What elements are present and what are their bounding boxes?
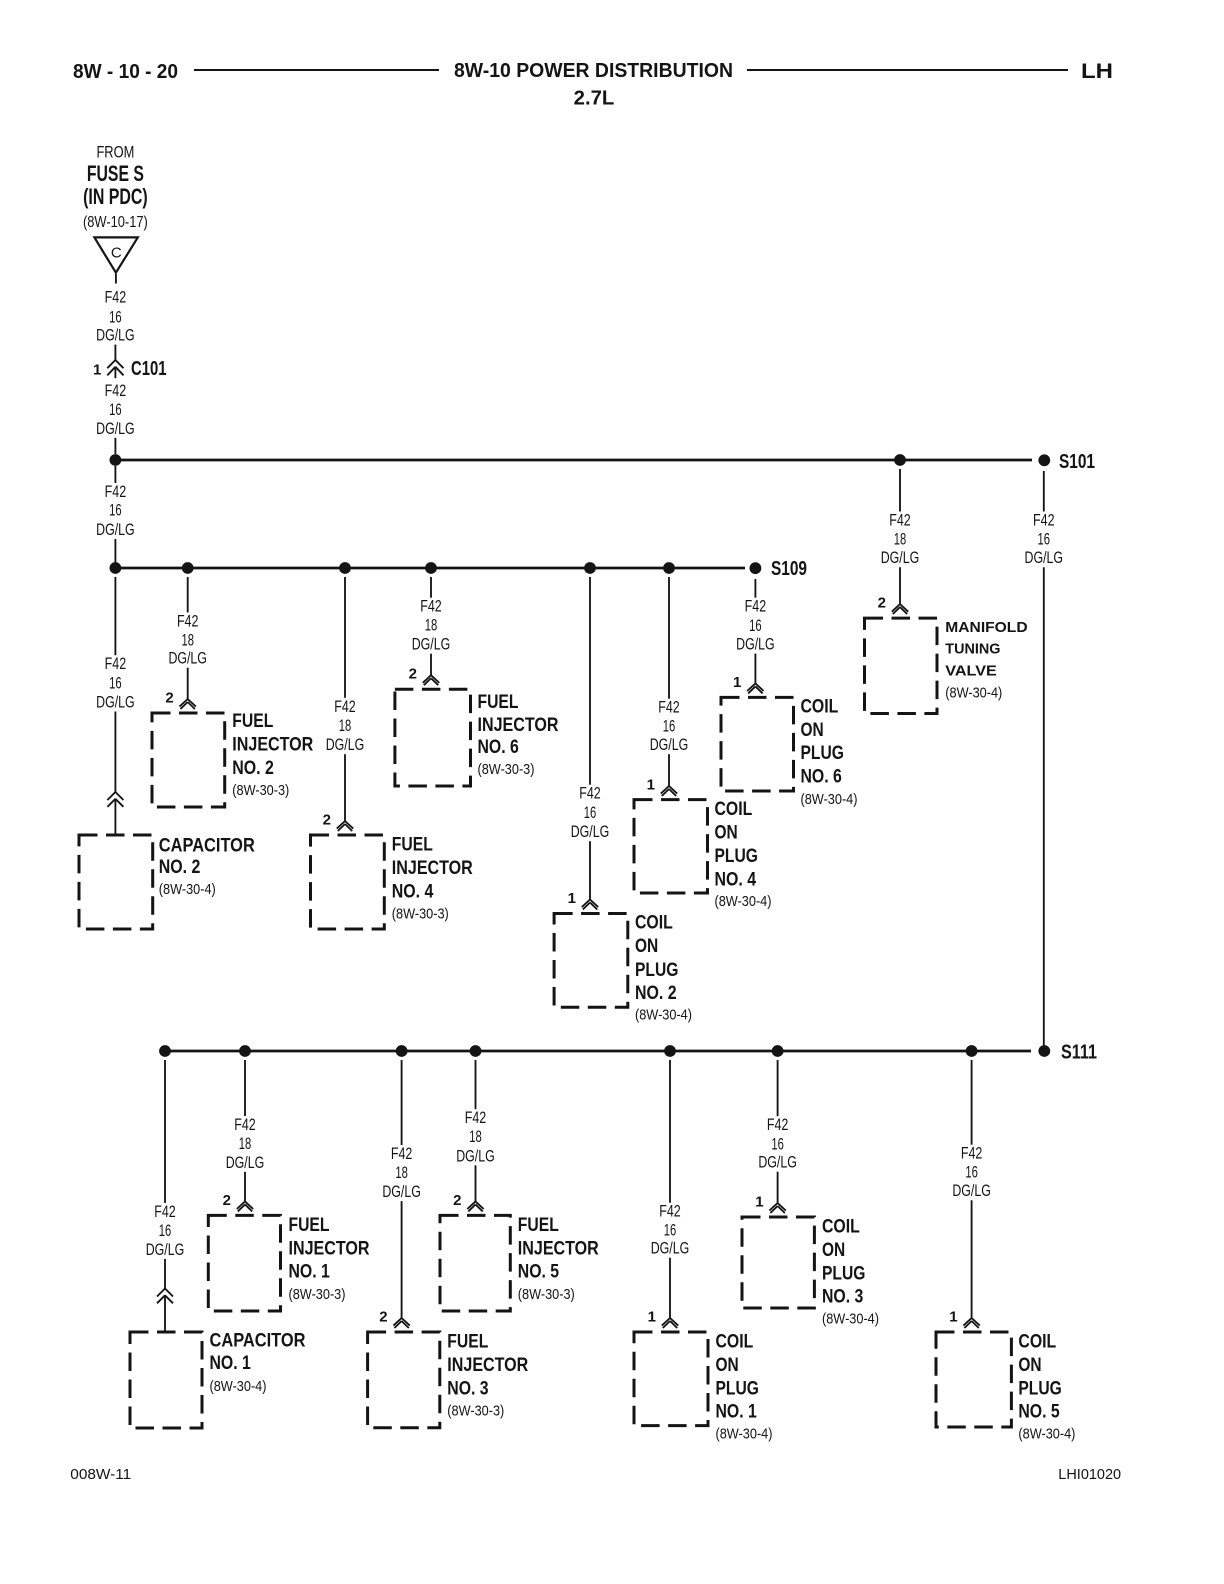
svg-text:2: 2: [453, 1192, 461, 1209]
svg-text:PLUG: PLUG: [635, 959, 678, 981]
svg-text:LH: LH: [1081, 59, 1113, 83]
svg-text:1: 1: [949, 1309, 957, 1326]
svg-text:F42: F42: [658, 699, 680, 717]
svg-text:1: 1: [733, 674, 741, 691]
svg-text:1: 1: [648, 1309, 656, 1326]
svg-text:NO. 4: NO. 4: [715, 868, 757, 890]
svg-text:8W - 10 - 20: 8W - 10 - 20: [73, 61, 178, 83]
svg-text:C101: C101: [131, 358, 167, 380]
svg-text:C: C: [111, 244, 122, 261]
svg-text:DG/LG: DG/LG: [96, 694, 135, 712]
svg-text:PLUG: PLUG: [716, 1377, 759, 1399]
svg-text:PLUG: PLUG: [822, 1262, 865, 1284]
svg-text:FUEL: FUEL: [232, 710, 273, 732]
svg-text:FUEL: FUEL: [289, 1214, 330, 1236]
svg-text:NO. 6: NO. 6: [801, 766, 842, 788]
svg-text:PLUG: PLUG: [1018, 1377, 1061, 1399]
svg-text:NO. 1: NO. 1: [289, 1261, 330, 1283]
svg-text:F42: F42: [105, 483, 127, 501]
svg-text:NO. 6: NO. 6: [478, 736, 519, 758]
svg-text:NO. 3: NO. 3: [822, 1286, 863, 1308]
svg-text:INJECTOR: INJECTOR: [392, 857, 473, 879]
svg-text:16: 16: [109, 308, 122, 326]
svg-text:DG/LG: DG/LG: [881, 549, 920, 567]
svg-text:FUEL: FUEL: [447, 1331, 488, 1353]
svg-text:DG/LG: DG/LG: [758, 1154, 797, 1172]
svg-text:DG/LG: DG/LG: [571, 823, 610, 841]
svg-text:PLUG: PLUG: [801, 742, 844, 764]
svg-text:DG/LG: DG/LG: [96, 327, 135, 345]
svg-text:(8W-30-4): (8W-30-4): [945, 685, 1002, 702]
svg-text:16: 16: [965, 1164, 978, 1182]
svg-text:S111: S111: [1061, 1042, 1097, 1064]
svg-text:16: 16: [664, 1222, 677, 1240]
svg-text:MANIFOLD: MANIFOLD: [945, 619, 1027, 636]
svg-text:16: 16: [771, 1136, 784, 1154]
svg-text:ON: ON: [715, 822, 738, 844]
svg-text:2: 2: [878, 595, 886, 612]
svg-text:F42: F42: [889, 512, 911, 530]
svg-text:INJECTOR: INJECTOR: [518, 1238, 599, 1260]
svg-text:F42: F42: [177, 612, 199, 630]
svg-text:18: 18: [339, 717, 352, 735]
svg-text:ON: ON: [801, 719, 824, 741]
svg-text:ON: ON: [635, 935, 658, 957]
svg-text:(8W-30-4): (8W-30-4): [716, 1426, 773, 1443]
svg-text:F42: F42: [334, 698, 356, 716]
svg-text:FUEL: FUEL: [392, 834, 433, 856]
svg-text:NO. 4: NO. 4: [392, 880, 434, 902]
svg-text:FROM: FROM: [96, 144, 134, 162]
svg-text:CAPACITOR: CAPACITOR: [210, 1330, 306, 1352]
svg-text:F42: F42: [105, 655, 127, 673]
svg-text:F42: F42: [745, 598, 767, 616]
svg-text:NO. 2: NO. 2: [159, 856, 201, 878]
svg-text:NO. 5: NO. 5: [518, 1261, 559, 1283]
svg-text:TUNING: TUNING: [945, 640, 1000, 657]
svg-text:F42: F42: [659, 1203, 681, 1221]
svg-text:16: 16: [109, 502, 122, 520]
svg-text:INJECTOR: INJECTOR: [289, 1238, 370, 1260]
svg-text:DG/LG: DG/LG: [226, 1154, 265, 1172]
svg-text:2: 2: [165, 690, 173, 707]
svg-text:18: 18: [181, 631, 194, 649]
svg-text:(8W-10-17): (8W-10-17): [83, 214, 148, 231]
svg-text:F42: F42: [154, 1203, 176, 1221]
svg-text:(8W-30-3): (8W-30-3): [478, 761, 535, 778]
svg-text:PLUG: PLUG: [715, 845, 758, 867]
svg-text:DG/LG: DG/LG: [412, 636, 451, 654]
svg-text:1: 1: [568, 890, 576, 907]
svg-text:008W-11: 008W-11: [70, 1466, 131, 1483]
svg-text:NO. 2: NO. 2: [232, 757, 274, 779]
svg-text:NO. 5: NO. 5: [1018, 1401, 1059, 1423]
svg-text:DG/LG: DG/LG: [96, 420, 135, 438]
svg-text:COIL: COIL: [635, 911, 673, 933]
svg-text:(8W-30-3): (8W-30-3): [289, 1286, 346, 1303]
svg-text:DG/LG: DG/LG: [736, 636, 775, 654]
svg-text:8W-10 POWER DISTRIBUTION: 8W-10 POWER DISTRIBUTION: [454, 60, 733, 82]
svg-text:18: 18: [239, 1135, 252, 1153]
svg-text:S109: S109: [771, 558, 807, 580]
svg-text:COIL: COIL: [801, 696, 839, 718]
svg-text:INJECTOR: INJECTOR: [447, 1354, 528, 1376]
svg-text:DG/LG: DG/LG: [168, 650, 207, 668]
svg-text:NO. 3: NO. 3: [447, 1377, 488, 1399]
svg-text:FUSE S: FUSE S: [87, 161, 144, 186]
svg-text:1: 1: [647, 777, 655, 794]
svg-text:ON: ON: [822, 1239, 845, 1261]
svg-text:18: 18: [395, 1164, 408, 1182]
svg-text:2.7L: 2.7L: [574, 88, 615, 110]
svg-text:(8W-30-3): (8W-30-3): [392, 905, 449, 922]
svg-text:DG/LG: DG/LG: [650, 736, 689, 754]
svg-text:COIL: COIL: [715, 798, 753, 820]
svg-text:F42: F42: [767, 1116, 789, 1134]
svg-text:(8W-30-4): (8W-30-4): [635, 1007, 692, 1024]
svg-text:ON: ON: [716, 1354, 739, 1376]
svg-text:COIL: COIL: [716, 1331, 754, 1353]
svg-text:F42: F42: [579, 785, 601, 803]
svg-text:16: 16: [109, 674, 122, 692]
svg-text:COIL: COIL: [822, 1216, 860, 1238]
svg-text:DG/LG: DG/LG: [456, 1147, 495, 1165]
svg-text:NO. 2: NO. 2: [635, 982, 677, 1004]
svg-text:ON: ON: [1018, 1354, 1041, 1376]
svg-text:F42: F42: [1033, 512, 1055, 530]
svg-text:18: 18: [469, 1128, 482, 1146]
svg-text:18: 18: [894, 531, 907, 549]
svg-text:2: 2: [323, 812, 331, 829]
svg-text:1: 1: [755, 1194, 763, 1211]
svg-text:DG/LG: DG/LG: [651, 1240, 690, 1258]
svg-text:INJECTOR: INJECTOR: [478, 714, 559, 736]
svg-text:NO. 1: NO. 1: [716, 1401, 757, 1423]
svg-text:COIL: COIL: [1018, 1331, 1056, 1353]
svg-text:F42: F42: [465, 1109, 487, 1127]
svg-text:F42: F42: [105, 382, 127, 400]
svg-text:2: 2: [379, 1309, 387, 1326]
svg-text:1: 1: [93, 362, 101, 379]
svg-text:DG/LG: DG/LG: [382, 1183, 421, 1201]
svg-text:(8W-30-4): (8W-30-4): [1018, 1426, 1075, 1443]
svg-text:DG/LG: DG/LG: [326, 736, 365, 754]
svg-text:16: 16: [584, 804, 597, 822]
svg-text:F42: F42: [391, 1145, 413, 1163]
svg-text:(IN PDC): (IN PDC): [83, 184, 148, 209]
svg-text:DG/LG: DG/LG: [146, 1241, 185, 1259]
svg-text:FUEL: FUEL: [478, 691, 519, 713]
svg-text:(8W-30-3): (8W-30-3): [447, 1403, 504, 1420]
svg-text:LHI01020: LHI01020: [1058, 1466, 1121, 1483]
svg-text:(8W-30-4): (8W-30-4): [210, 1378, 267, 1395]
svg-text:DG/LG: DG/LG: [96, 521, 135, 539]
svg-text:16: 16: [663, 717, 676, 735]
svg-text:FUEL: FUEL: [518, 1214, 559, 1236]
svg-text:(8W-30-3): (8W-30-3): [232, 782, 289, 799]
svg-text:INJECTOR: INJECTOR: [232, 734, 313, 756]
svg-text:DG/LG: DG/LG: [952, 1182, 991, 1200]
svg-text:F42: F42: [420, 598, 442, 616]
svg-text:(8W-30-4): (8W-30-4): [822, 1311, 879, 1328]
svg-text:F42: F42: [961, 1145, 983, 1163]
svg-text:F42: F42: [234, 1116, 256, 1134]
svg-text:18: 18: [425, 617, 438, 635]
svg-text:(8W-30-3): (8W-30-3): [518, 1286, 575, 1303]
svg-text:DG/LG: DG/LG: [1025, 549, 1064, 567]
svg-text:16: 16: [109, 401, 122, 419]
svg-text:VALVE: VALVE: [945, 663, 997, 680]
svg-text:16: 16: [159, 1222, 172, 1240]
svg-text:(8W-30-4): (8W-30-4): [801, 791, 858, 808]
svg-text:F42: F42: [105, 289, 127, 307]
svg-text:(8W-30-4): (8W-30-4): [159, 881, 216, 898]
svg-text:16: 16: [749, 617, 762, 635]
svg-text:(8W-30-4): (8W-30-4): [715, 893, 772, 910]
svg-text:16: 16: [1038, 531, 1051, 549]
svg-text:NO. 1: NO. 1: [210, 1352, 251, 1374]
svg-text:CAPACITOR: CAPACITOR: [159, 835, 255, 857]
svg-text:2: 2: [223, 1192, 231, 1209]
svg-text:S101: S101: [1059, 451, 1095, 473]
svg-text:2: 2: [409, 666, 417, 683]
